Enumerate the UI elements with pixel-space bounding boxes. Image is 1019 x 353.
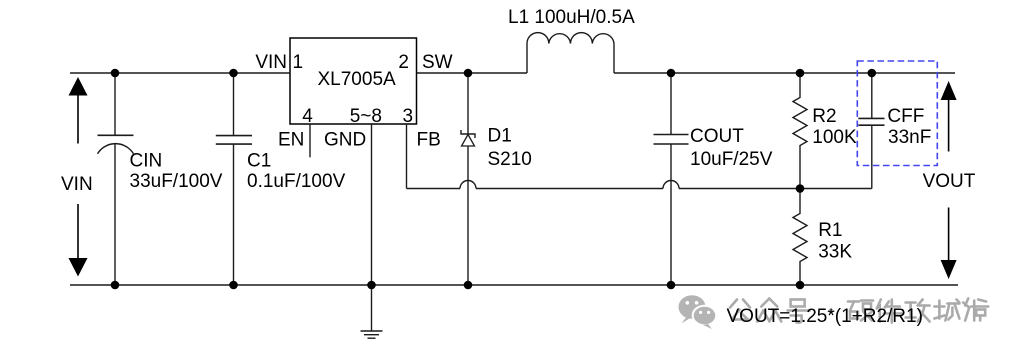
svg-text:33K: 33K: [818, 242, 852, 263]
node VOUT label: [923, 171, 976, 192]
wire bottom ground rail: [70, 284, 958, 286]
resistor R1: [793, 189, 807, 286]
svg-text:0.1uF/100V: 0.1uF/100V: [247, 171, 346, 192]
watermark text 公众号·硬件攻城狮 (drawn strokes): [730, 299, 988, 323]
highlight box around CFF (dashed): [857, 61, 937, 166]
svg-text:FB: FB: [417, 130, 441, 151]
wire top rail right (VOUT net after inductor): [614, 72, 955, 74]
capacitor C1: [216, 73, 252, 285]
wm char gong2: [906, 300, 930, 322]
wm char hao: [788, 300, 810, 323]
wm char jian: [877, 300, 902, 323]
watermark wechat icon: [679, 295, 717, 329]
wire top rail left (VIN net, input to pin 1): [70, 72, 290, 74]
svg-text:S210: S210: [488, 149, 532, 170]
svg-text:33uF/100V: 33uF/100V: [130, 171, 223, 192]
inductor L1: [527, 33, 614, 73]
svg-text:VOUT: VOUT: [923, 171, 976, 192]
junction top rail at CIN: [111, 69, 120, 78]
junction bottom rail at C1: [229, 281, 238, 290]
svg-text:SW: SW: [422, 52, 453, 73]
junction top rail at CFF: [868, 69, 877, 78]
label XL7005A: [318, 69, 397, 90]
pin 3 label: [403, 106, 414, 127]
node VIN label: [61, 174, 93, 195]
junction FB divider node: [796, 184, 805, 193]
label C1 value: [247, 151, 346, 193]
wm separator dot: [829, 309, 834, 314]
pin SW label: [422, 52, 453, 73]
svg-text:CIN: CIN: [130, 151, 163, 172]
label R2 value: [812, 106, 857, 148]
pin 4 label: [302, 106, 313, 127]
pin FB label: [417, 130, 441, 151]
junction bottom rail at D1: [464, 281, 473, 290]
pin VIN label: [255, 52, 287, 73]
pin 1 label: [293, 52, 304, 73]
svg-text:L1 100uH/0.5A: L1 100uH/0.5A: [508, 7, 635, 28]
capacitor CIN (polarized): [98, 73, 134, 285]
svg-text:VIN: VIN: [255, 52, 287, 73]
junction bottom rail at GND pin: [367, 281, 376, 290]
ground symbol: [361, 285, 383, 338]
node VOUT output arrow (up): [941, 81, 957, 152]
svg-text:VOUT=1.25*(1+R2/R1): VOUT=1.25*(1+R2/R1): [727, 306, 923, 327]
junction top rail at R2: [796, 69, 805, 78]
svg-text:R2: R2: [812, 106, 836, 127]
diode D1 (schottky): [461, 73, 475, 285]
svg-text:D1: D1: [488, 126, 512, 147]
svg-text:XL7005A: XL7005A: [318, 69, 397, 90]
svg-text:R1: R1: [818, 220, 842, 241]
svg-text:33nF: 33nF: [888, 127, 931, 148]
wire EN stub (pin 4): [309, 124, 311, 157]
junction bottom rail at R1: [796, 281, 805, 290]
svg-text:3: 3: [403, 106, 414, 127]
svg-text:EN: EN: [278, 130, 304, 151]
op-amp U1 XL7005A body: [290, 38, 417, 124]
capacitor COUT: [654, 73, 689, 285]
svg-text:4: 4: [302, 106, 313, 127]
junction bottom rail at COUT: [667, 281, 676, 290]
node VIN input arrow (up): [69, 77, 88, 144]
wm char shi: [963, 299, 988, 321]
svg-text:10uF/25V: 10uF/25V: [690, 149, 773, 170]
svg-text:2: 2: [398, 52, 409, 73]
svg-text:VIN: VIN: [61, 174, 93, 195]
wm char zhong: [757, 299, 781, 322]
wire SW net (pin 2 to inductor): [417, 72, 528, 74]
node VOUT output arrow (down): [941, 208, 957, 280]
wire GND pin to ground rail: [371, 124, 373, 285]
label COUT value: [690, 126, 773, 170]
pin 2 label: [398, 52, 409, 73]
junction top rail at COUT: [667, 69, 676, 78]
label R1 value: [818, 220, 852, 263]
label CFF value: [887, 106, 931, 148]
svg-text:5~8: 5~8: [350, 106, 382, 127]
svg-text:1: 1: [293, 52, 304, 73]
wm char ying: [848, 301, 873, 321]
resistor R2: [793, 73, 807, 189]
wire FB net (pin 3 down and right to divider): [407, 124, 872, 189]
junction top rail at C1: [229, 69, 238, 78]
pin 5~8 label: [350, 106, 382, 127]
svg-text:100K: 100K: [812, 127, 857, 148]
label CIN value: [130, 151, 223, 193]
svg-text:C1: C1: [247, 151, 271, 172]
node VIN input arrow (down): [69, 204, 88, 277]
junction SW at D1: [464, 69, 473, 78]
svg-text:COUT: COUT: [690, 126, 744, 147]
capacitor CFF: [858, 73, 884, 189]
label L1 value: [508, 7, 635, 28]
label output formula: [727, 306, 923, 327]
pin GND label: [324, 130, 366, 151]
junction bottom rail at CIN: [111, 281, 120, 290]
svg-text:GND: GND: [324, 130, 366, 151]
wm char cheng: [934, 300, 959, 321]
svg-text:CFF: CFF: [887, 106, 924, 127]
label D1 value: [488, 126, 532, 170]
pin EN label: [278, 130, 304, 151]
wm char gong1: [730, 300, 750, 320]
